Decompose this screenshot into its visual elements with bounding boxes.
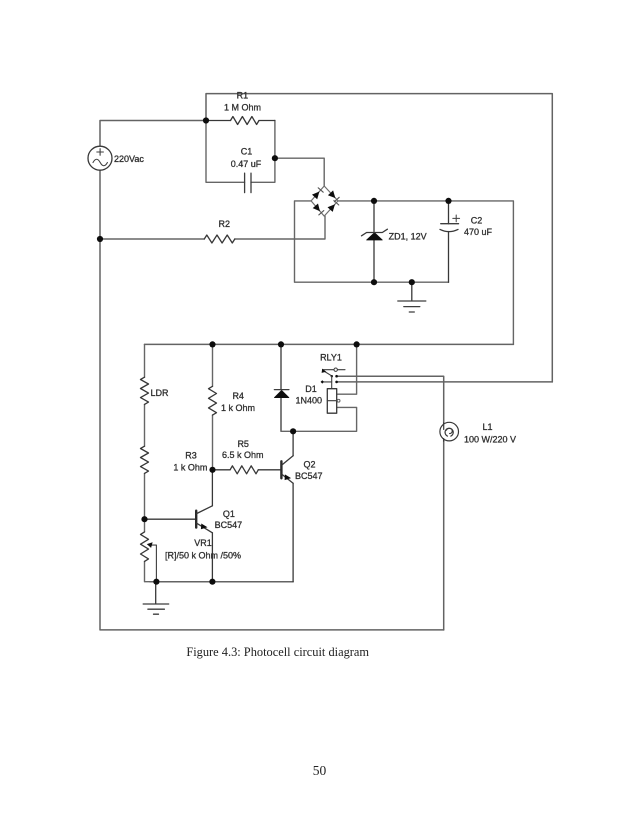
svg-text:Q2: Q2 (303, 460, 315, 470)
wire Q1 base lead (145, 518, 196, 520)
wire Q1 collector vertical (211, 470, 213, 506)
wire from source top to R1 node (100, 121, 206, 147)
label R5 (237, 439, 249, 449)
wire left side from source down to bottom (100, 170, 444, 630)
transistor Q1 (196, 506, 212, 533)
wire coil top terminal to rail (337, 344, 357, 394)
wire Q1 emitter vertical (211, 533, 213, 582)
node ZD1 top (371, 198, 377, 204)
label Q2 type (295, 471, 323, 481)
node ZD1 bottom (371, 279, 377, 285)
svg-text:6.5 k Ohm: 6.5 k Ohm (222, 450, 264, 460)
svg-text:C2: C2 (471, 215, 483, 225)
wire D1 branch (280, 344, 282, 431)
relay RLY1 coil (327, 389, 340, 414)
resistor R4 (209, 386, 217, 415)
svg-text:VR1: VR1 (194, 538, 212, 548)
svg-text:R2: R2 (219, 219, 231, 229)
wire R1/C1 loop left side (206, 121, 245, 183)
label VR1 value (165, 550, 241, 560)
svg-text:220Vac: 220Vac (114, 154, 144, 164)
node R2 left (97, 236, 103, 242)
node C1 right (272, 155, 278, 161)
resistor R5 (230, 466, 258, 474)
ground upper (398, 282, 426, 312)
node ground upper tap (409, 279, 415, 285)
LDR (141, 377, 149, 404)
svg-text:Q1: Q1 (223, 509, 235, 519)
svg-text:D1: D1 (305, 384, 317, 394)
svg-text:470 uF: 470 uF (464, 227, 493, 237)
wire D1 bottom to coil return (281, 407, 357, 431)
label Q1 type (215, 520, 243, 530)
resistor R1 (206, 117, 275, 125)
svg-text:1 k Ohm: 1 k Ohm (221, 403, 255, 413)
node rail R4 (209, 341, 215, 347)
svg-text:L1: L1 (482, 422, 492, 432)
wire Q2 collector vertical (292, 431, 294, 455)
label R5 value (222, 450, 264, 460)
resistor R2 (204, 235, 235, 243)
label RLY1 (320, 352, 342, 362)
svg-text:R3: R3 (185, 451, 197, 461)
label 220Vac (114, 154, 144, 164)
wire C1 node to bridge top (275, 158, 324, 186)
label R4 value (221, 403, 255, 413)
node R5 junction (209, 467, 215, 473)
label R1 (237, 90, 249, 100)
svg-text:Figure 4.3: Photocell circuit: Figure 4.3: Photocell circuit diagram (186, 645, 369, 659)
node R1 left (203, 117, 209, 123)
node VR1 wiper ground (153, 579, 159, 585)
svg-text:100 W/220 V: 100 W/220 V (464, 434, 516, 444)
label L1 value (464, 434, 516, 444)
label D1 (305, 384, 317, 394)
svg-text:R5: R5 (237, 439, 249, 449)
svg-text:C1: C1 (241, 147, 253, 157)
wire R1/C1 loop right side (251, 121, 275, 183)
svg-text:BC547: BC547 (295, 471, 323, 481)
wire R5 right lead to Q2 base (258, 469, 280, 471)
svg-text:R1: R1 (237, 90, 249, 100)
capacitor C1 (245, 173, 251, 192)
label LDR (151, 388, 170, 398)
wire R4 branch (212, 344, 214, 469)
wire lower circuit left side (145, 344, 151, 581)
wire Q2 emitter vertical (292, 483, 294, 581)
label C2 (471, 215, 483, 225)
label VR1 (194, 538, 212, 548)
wire C2 bottom lead (448, 232, 450, 283)
ground lower (143, 582, 169, 615)
wire R5 left lead (213, 469, 231, 471)
potentiometer VR1 (141, 532, 157, 582)
wire ZD1 leads (373, 201, 375, 282)
wire relay contact to lamp (337, 376, 444, 424)
diode D1 (274, 390, 289, 398)
svg-text:BC547: BC547 (215, 520, 243, 530)
svg-text:ZD1, 12V: ZD1, 12V (389, 231, 427, 241)
node rail D1 (278, 341, 284, 347)
capacitor C2 electrolytic (440, 215, 460, 232)
label C1 (241, 147, 253, 157)
zener ZD1 (362, 229, 388, 240)
label L1 (482, 422, 492, 432)
label R1 value (224, 103, 261, 113)
svg-text:1 M Ohm: 1 M Ohm (224, 103, 261, 113)
svg-text:50: 50 (313, 763, 327, 778)
svg-text:1 k Ohm: 1 k Ohm (173, 462, 207, 472)
bridge rectifier diamond (311, 186, 339, 216)
label D1 value (296, 396, 323, 406)
wire DC plus rail (338, 201, 513, 345)
wire relay contact to right edge (337, 381, 553, 383)
node D1 bottom junction (290, 428, 296, 434)
label R3 (185, 451, 197, 461)
wire R2 line (100, 238, 204, 240)
wire lamp bottom (443, 440, 445, 630)
label R4 (232, 391, 244, 401)
svg-text:0.47 uF: 0.47 uF (231, 159, 262, 169)
wire bridge left vertex to ground rail (295, 201, 449, 282)
label C2 value (464, 227, 493, 237)
wire lower circuit top rail (145, 343, 514, 345)
svg-text:[R]/50 k Ohm /50%: [R]/50 k Ohm /50% (165, 550, 241, 560)
wire emitter ground rail (150, 581, 293, 583)
label ZD1 (389, 231, 427, 241)
node rail coil (354, 341, 360, 347)
lamp L1 (440, 422, 459, 441)
node Q1 emitter junction (209, 579, 215, 585)
wire C2 top lead (448, 201, 450, 224)
AC source V1 220Vac (88, 146, 112, 170)
label R3 value (173, 462, 207, 472)
label R2 (219, 219, 231, 229)
svg-text:RLY1: RLY1 (320, 352, 342, 362)
relay RLY1 contacts (321, 368, 345, 389)
svg-text:R4: R4 (232, 391, 244, 401)
node C2 top (445, 198, 451, 204)
wire top from R1 loop to right edge (206, 94, 552, 382)
resistor R3 (141, 446, 149, 473)
transistor Q2 (281, 456, 293, 484)
label C1 value (231, 159, 262, 169)
label Q2 (303, 460, 315, 470)
svg-text:LDR: LDR (151, 388, 170, 398)
node Q1 base junction (141, 516, 147, 522)
page number (313, 763, 327, 778)
svg-text:1N400: 1N400 (296, 396, 323, 406)
label Q1 (223, 509, 235, 519)
caption (186, 645, 369, 659)
